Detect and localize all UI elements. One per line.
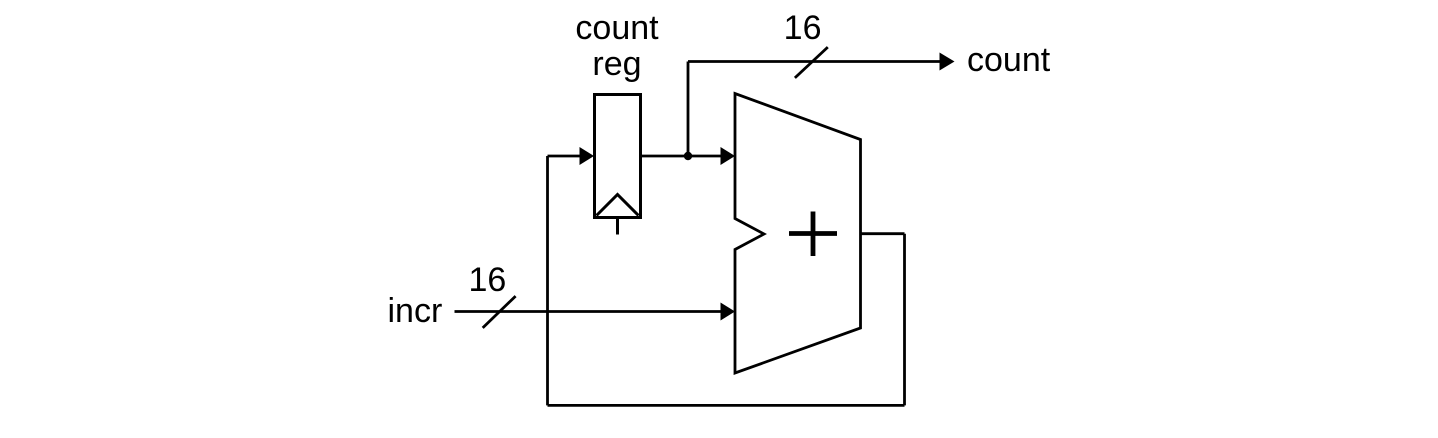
- wire: incr input bus to adder input B: [455, 303, 736, 321]
- svg-text:16: 16: [784, 9, 822, 47]
- wire: feedback into register D input: [548, 147, 595, 165]
- wire: feedback bottom horizontal: [548, 404, 905, 407]
- clock stub: [616, 219, 619, 235]
- bus-width slash on incr input: [483, 296, 516, 328]
- label: count: [967, 41, 1051, 79]
- wire: count output bus: [688, 53, 955, 71]
- svg-text:16: 16: [468, 261, 506, 299]
- wire: register Q output to adder input A: [641, 147, 736, 165]
- wire: node count vertical riser: [687, 62, 690, 157]
- label: incr: [388, 292, 443, 330]
- plus symbol: [789, 212, 837, 257]
- wire: feedback left vertical: [546, 156, 549, 405]
- register count reg: [595, 95, 641, 218]
- label: count reg: [575, 9, 659, 83]
- bus-width slash on count output: [795, 47, 828, 78]
- junction dot node count: [684, 152, 692, 160]
- svg-text:count: count: [967, 41, 1051, 79]
- label: 16 (count bus width): [784, 9, 822, 47]
- svg-text:count: count: [575, 9, 659, 47]
- label: 16 (incr bus width): [468, 261, 506, 299]
- wire: adder sum output: [861, 232, 905, 235]
- svg-text:reg: reg: [592, 45, 641, 83]
- wire: feedback right vertical: [903, 234, 906, 406]
- clock edge-trigger triangle: [597, 195, 639, 216]
- svg-text:incr: incr: [388, 292, 443, 330]
- adder U1: [735, 94, 861, 374]
